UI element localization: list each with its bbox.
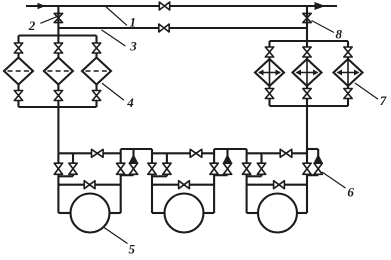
cooler E3 (item 7) [334, 59, 363, 86]
unit 3 bypass stub valve [257, 163, 265, 174]
wire: unit 1 discharge riser [120, 149, 122, 213]
wire: unit 1 discharge bridge bar [121, 148, 152, 150]
label 3 leader [101, 30, 125, 46]
label 1 leader [106, 7, 127, 26]
pump P3 (item 5) [258, 194, 297, 233]
wire: unit 2 cross line [152, 184, 214, 186]
wire: unit 1 stub merge [58, 175, 73, 177]
right bank inlet valve 2 [303, 47, 311, 57]
wire: right branch 1 vertical [268, 41, 270, 106]
unit 1 bypass stub valve [69, 163, 77, 174]
valve 2 [54, 13, 62, 22]
filter F1 (item 4) [4, 58, 33, 85]
manifold valve unit 3 [280, 149, 292, 157]
svg-text:4: 4 [126, 95, 134, 110]
wire: left bank bottom header [19, 106, 97, 108]
svg-text:6: 6 [347, 185, 354, 200]
wire: manifold segment 1 [58, 152, 120, 154]
wire: unit 2 discharge bridge bar [214, 148, 247, 150]
label 2 leader [40, 17, 56, 24]
wire: left branch 1 vertical [17, 36, 19, 108]
wire: unit 2 pump discharge [203, 212, 215, 214]
wire: pipeline 1 (top main) [26, 5, 337, 7]
wire: unit 2 suction drop [151, 153, 153, 213]
wire: manifold segment 2 [152, 152, 214, 154]
right bank outlet valve 2 [303, 89, 311, 99]
wire: unit 1 bypass stub [72, 153, 74, 176]
wire: left main vertical (line1 to manifold) [57, 6, 59, 153]
wire: unit 3 bypass stub [260, 153, 262, 176]
left bank inlet valve 2 [54, 43, 62, 53]
valve on pipeline 1 [159, 2, 169, 10]
unit 2 check-leg valve [223, 163, 231, 174]
left bank outlet valve 3 [92, 91, 100, 101]
flow arrow into pipeline 1 [38, 3, 46, 9]
wire: unit 3 discharge bar stub [307, 148, 318, 150]
wire: left bank top header [19, 34, 97, 36]
wire: unit 3 pump discharge [296, 212, 307, 214]
label 4 leader [102, 83, 124, 100]
valve 8 [303, 13, 311, 22]
wire: manifold segment 3 [247, 152, 307, 154]
wire: unit 3 check leg [317, 149, 319, 175]
wire: unit 3 stub merge [247, 175, 262, 177]
left bank inlet valve 1 [14, 43, 22, 53]
svg-text:5: 5 [129, 242, 136, 256]
wire: unit 2 discharge riser [213, 149, 215, 213]
cooler E1 (item 7) [255, 59, 284, 86]
wire: unit 3 discharge merge [307, 174, 318, 176]
wire: unit 1 check leg [132, 149, 134, 175]
wire: unit 1 cross line [58, 184, 120, 186]
label 6 leader [322, 172, 346, 188]
svg-text:1: 1 [130, 15, 137, 30]
wire: unit 2 discharge merge [214, 174, 227, 176]
wire: unit 1 pump discharge [109, 212, 121, 214]
wire: unit 3 suction drop [246, 153, 248, 213]
label 7 leader [355, 83, 378, 99]
wire: unit 2 stub merge [152, 175, 167, 177]
wire: pipeline 3 (second main) [58, 27, 307, 29]
wire: unit 3 suction to pump [247, 212, 259, 214]
filter F3 (item 4) [82, 58, 111, 85]
pump P1 (item 5) [71, 194, 110, 233]
svg-text:3: 3 [129, 38, 137, 53]
wire: unit 1 suction to pump [58, 212, 71, 214]
unit 1 cross-line valve [84, 181, 95, 189]
wire: unit 2 bridge right riser [246, 149, 248, 153]
wire: unit 1 suction drop [57, 153, 59, 213]
valve on pipeline 3 [159, 24, 169, 32]
unit 2 suction valve [148, 163, 156, 174]
filter F2 (item 4) [44, 58, 73, 85]
wire: unit 1 bridge right riser [151, 149, 153, 153]
unit 1 discharge valve [117, 163, 125, 174]
unit 2 check arrow [223, 154, 232, 163]
right bank outlet valve 3 [344, 89, 352, 99]
unit 1 suction valve [54, 163, 62, 174]
right bank outlet valve 1 [265, 89, 273, 99]
manifold valve unit 2 [190, 149, 202, 157]
cooler E2 (item 7) [293, 59, 322, 86]
wire: unit 3 cross line [247, 184, 307, 186]
unit 2 discharge valve [210, 163, 218, 174]
svg-text:8: 8 [336, 27, 343, 42]
wire: unit 2 suction to pump [152, 212, 166, 214]
unit 2 bypass stub valve [163, 163, 171, 174]
label 5 leader [104, 228, 128, 244]
right bank inlet valve 3 [344, 47, 352, 57]
right bank inlet valve 1 [265, 47, 273, 57]
wire: right main vertical (line1 to manifold) [306, 6, 308, 153]
svg-text:2: 2 [28, 18, 36, 33]
wire: unit 2 check leg [226, 149, 228, 175]
wire: right bank top header [270, 40, 349, 42]
manifold valve unit 1 [92, 149, 104, 157]
unit 3 discharge valve [303, 163, 311, 174]
svg-text:7: 7 [380, 93, 387, 108]
pump P2 (item 5) [165, 194, 204, 233]
unit 3 check arrow [314, 154, 323, 163]
left bank inlet valve 3 [92, 43, 100, 53]
wire: right branch 3 vertical [347, 41, 349, 106]
wire: left branch 3 vertical [95, 36, 97, 108]
unit 3 check-leg valve [314, 163, 322, 174]
wire: unit 1 discharge merge [121, 174, 134, 176]
unit 3 cross-line valve [274, 181, 285, 189]
label 8 leader [312, 21, 335, 33]
flow arrow out of pipeline 1 [315, 2, 326, 10]
unit 2 cross-line valve [179, 181, 190, 189]
unit 1 check arrow [129, 154, 138, 163]
wire: unit 3 discharge riser [306, 149, 308, 213]
wire: right bank bottom header [270, 105, 349, 107]
left bank outlet valve 1 [14, 91, 22, 101]
left bank outlet valve 2 [54, 91, 62, 101]
wire: unit 2 bypass stub [166, 153, 168, 176]
unit 1 check-leg valve [129, 163, 137, 174]
unit 3 suction valve [242, 163, 250, 174]
